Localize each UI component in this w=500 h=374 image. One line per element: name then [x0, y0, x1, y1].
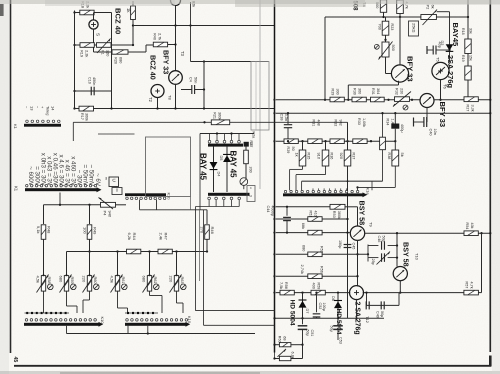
svg-text:5k: 5k: [400, 153, 405, 157]
svg-text:50: 50: [291, 147, 295, 151]
svg-text:D7: D7: [305, 309, 309, 314]
svg-text:~ 600V: ~ 600V: [27, 166, 34, 187]
svg-text:U: U: [112, 179, 117, 182]
svg-text:K1: K1: [14, 186, 19, 192]
svg-text:Teleg: Teleg: [45, 106, 50, 115]
svg-text:C38: C38: [279, 114, 283, 121]
svg-text:R23: R23: [390, 24, 394, 31]
svg-text:R21: R21: [213, 112, 217, 119]
svg-text:BAY45: BAY45: [451, 23, 460, 48]
svg-text:50n: 50n: [193, 77, 197, 83]
svg-text:2,7k: 2,7k: [157, 33, 161, 40]
svg-text:100μ: 100μ: [322, 303, 326, 311]
svg-text:R51: R51: [309, 211, 313, 218]
svg-text:C44: C44: [266, 206, 270, 213]
svg-text:S: S: [96, 33, 101, 36]
svg-text:BFY 33: BFY 33: [406, 56, 415, 82]
svg-text:6,8k: 6,8k: [291, 352, 295, 359]
svg-text:R36: R36: [330, 153, 334, 160]
svg-text:HD 5004: HD 5004: [335, 309, 342, 335]
svg-text:3,3n: 3,3n: [284, 114, 288, 121]
svg-text:T10: T10: [415, 253, 420, 261]
svg-text:~ 50mV: ~ 50mV: [88, 165, 95, 187]
svg-text:K2a: K2a: [251, 132, 255, 140]
svg-text:R56: R56: [320, 266, 324, 273]
svg-text:K1a: K1a: [366, 188, 371, 196]
svg-text:C45: C45: [352, 243, 356, 250]
svg-text:910: 910: [317, 153, 322, 160]
svg-text:920: 920: [339, 153, 344, 160]
svg-text:BAY 45: BAY 45: [229, 151, 238, 179]
svg-text:50p: 50p: [381, 236, 385, 242]
svg-text:R32: R32: [395, 88, 399, 95]
svg-text:680: 680: [58, 276, 63, 283]
svg-text:− 30V: − 30V: [76, 170, 83, 187]
svg-text:1,06k: 1,06k: [362, 118, 366, 127]
svg-text:BCZ 40: BCZ 40: [149, 55, 158, 80]
svg-text:50μ: 50μ: [306, 330, 310, 336]
svg-text:C53: C53: [339, 337, 343, 344]
svg-text:= 300V: = 300V: [33, 166, 40, 187]
svg-text:R57: R57: [465, 282, 469, 289]
svg-text:K1: K1: [13, 124, 18, 130]
svg-text:400: 400: [312, 283, 316, 289]
svg-text:K10: K10: [100, 317, 105, 325]
svg-text:2,74k: 2,74k: [300, 265, 304, 274]
svg-text:R33: R33: [357, 118, 361, 125]
svg-text:680: 680: [118, 57, 122, 63]
svg-text:R54: R54: [465, 223, 469, 230]
svg-text:200: 200: [249, 167, 253, 173]
svg-text:408: 408: [316, 120, 320, 126]
svg-text:220: 220: [81, 276, 86, 283]
svg-text:BFY 33: BFY 33: [162, 50, 171, 74]
svg-text:360k: 360k: [337, 211, 341, 219]
svg-text:R34: R34: [386, 119, 390, 126]
svg-text:R63: R63: [180, 277, 184, 284]
svg-text:R61: R61: [121, 277, 125, 284]
svg-text:C49: C49: [376, 311, 380, 318]
svg-text:D5: D5: [219, 156, 223, 161]
svg-text:410: 410: [313, 211, 317, 217]
svg-text:P2: P2: [426, 5, 431, 10]
svg-text:68: 68: [282, 336, 286, 340]
svg-text:T5: T5: [436, 57, 441, 62]
svg-text:T2: T2: [148, 97, 153, 103]
svg-text:D8: D8: [331, 296, 335, 301]
svg-text:R60: R60: [93, 277, 97, 284]
svg-text:4,5k: 4,5k: [109, 276, 114, 284]
svg-text:BSY 58: BSY 58: [358, 201, 367, 226]
svg-text:R59: R59: [316, 283, 320, 290]
svg-text:R62: R62: [153, 277, 157, 284]
svg-text:R58: R58: [47, 277, 51, 284]
svg-text:T6: T6: [443, 84, 448, 89]
svg-text:R46: R46: [210, 227, 215, 235]
svg-text:T12: T12: [365, 316, 370, 324]
svg-text:R40: R40: [153, 33, 157, 40]
svg-text:R27: R27: [466, 105, 470, 112]
svg-text:R29: R29: [286, 147, 290, 154]
svg-text:R58: R58: [284, 282, 288, 289]
svg-text:360: 360: [357, 88, 361, 94]
svg-text:x 4,6 = 30V: x 4,6 = 30V: [57, 155, 64, 187]
svg-text:R35: R35: [307, 153, 311, 160]
svg-text:33k: 33k: [469, 28, 473, 34]
svg-text:R52: R52: [320, 246, 324, 253]
svg-text:cc: cc: [115, 189, 119, 193]
svg-text:4,5k: 4,5k: [35, 276, 40, 284]
svg-text:P4: P4: [103, 211, 108, 217]
svg-text:R29: R29: [331, 89, 335, 96]
svg-text:680: 680: [302, 245, 306, 251]
svg-text:x 460 = 3V: x 460 = 3V: [70, 156, 77, 187]
svg-text:R44: R44: [132, 233, 137, 241]
svg-text:R31: R31: [312, 120, 316, 127]
svg-text:= 50mV: = 50mV: [82, 165, 89, 187]
svg-text:2,4k: 2,4k: [159, 233, 164, 241]
svg-text:R38: R38: [387, 153, 391, 160]
svg-text:D4: D4: [217, 172, 221, 178]
svg-text:x 0,46 =30V: x 0,46 =30V: [51, 153, 58, 187]
svg-text:R32: R32: [334, 120, 338, 127]
svg-text:K10: K10: [187, 316, 192, 324]
svg-text:4,7k: 4,7k: [469, 282, 473, 289]
svg-text:6k: 6k: [430, 5, 435, 9]
svg-text:2,2k: 2,2k: [84, 50, 88, 57]
svg-text:C46: C46: [377, 236, 381, 243]
svg-text:T8: T8: [168, 95, 173, 100]
svg-text:100: 100: [83, 227, 88, 234]
svg-text:6,2k: 6,2k: [127, 233, 132, 241]
svg-text:43k: 43k: [470, 223, 474, 229]
svg-text:BAY 45: BAY 45: [199, 153, 208, 181]
svg-text:BSY 58: BSY 58: [402, 242, 411, 267]
svg-text:x 043 = 3V: x 043 = 3V: [45, 156, 52, 187]
svg-text:364: 364: [376, 88, 380, 94]
svg-text:150μ: 150μ: [338, 240, 342, 248]
svg-text:680: 680: [141, 276, 146, 283]
svg-text:940: 940: [107, 211, 112, 218]
svg-text:R20: R20: [114, 57, 118, 64]
svg-text:3: 3: [249, 195, 253, 197]
svg-text:x 46 = 3V: x 46 = 3V: [64, 160, 71, 187]
svg-text:T3: T3: [180, 51, 185, 57]
svg-text:360k: 360k: [85, 113, 89, 121]
svg-text:R27: R27: [249, 141, 253, 148]
svg-text:x 0h3 = 30V: x 0h3 = 30V: [39, 153, 46, 187]
svg-text:R53: R53: [332, 211, 336, 218]
svg-text:360k: 360k: [217, 112, 221, 120]
svg-text:500: 500: [391, 45, 395, 51]
svg-text:15k: 15k: [469, 55, 473, 61]
svg-text:D2: D2: [440, 41, 444, 46]
svg-text:×: ×: [249, 187, 253, 189]
svg-text:R60: R60: [278, 336, 282, 343]
svg-text:7,5k: 7,5k: [279, 282, 283, 289]
svg-text:68k: 68k: [301, 223, 305, 229]
svg-text:BCZ 40: BCZ 40: [114, 8, 123, 34]
svg-text:400μ: 400μ: [400, 124, 404, 133]
svg-text:25p: 25p: [371, 259, 375, 265]
svg-text:R37: R37: [352, 153, 356, 160]
svg-text:R59: R59: [70, 277, 74, 284]
svg-text:C10: C10: [87, 77, 91, 84]
svg-text:4000μ: 4000μ: [270, 206, 274, 217]
svg-text:220: 220: [399, 88, 403, 94]
svg-text:9,1k: 9,1k: [36, 226, 41, 234]
svg-text:C40: C40: [429, 129, 433, 136]
svg-text:50μ: 50μ: [380, 311, 384, 317]
svg-text:R30: R30: [353, 88, 357, 95]
svg-text:10n: 10n: [433, 129, 437, 135]
svg-text:300: 300: [335, 89, 339, 95]
svg-text:R49: R49: [93, 227, 98, 235]
svg-text:R19: R19: [80, 50, 84, 57]
svg-text:3,3k: 3,3k: [470, 105, 474, 112]
svg-text:C52: C52: [318, 303, 322, 310]
svg-text:R47: R47: [164, 233, 169, 241]
svg-text:450n: 450n: [92, 77, 96, 85]
svg-text:220: 220: [168, 276, 173, 283]
svg-text:HD 5004: HD 5004: [289, 300, 296, 326]
svg-text:BFY 33: BFY 33: [438, 102, 447, 128]
svg-text:700: 700: [378, 24, 382, 30]
svg-text:1k: 1k: [295, 153, 300, 157]
svg-text:R18: R18: [461, 28, 465, 35]
svg-text:270: 270: [200, 227, 205, 234]
svg-text:942: 942: [338, 120, 342, 126]
svg-text:R17: R17: [80, 113, 84, 120]
svg-text:R31: R31: [371, 88, 375, 95]
svg-text:R19: R19: [461, 55, 465, 62]
svg-text:220: 220: [105, 50, 109, 56]
svg-text:45: 45: [12, 357, 18, 363]
svg-text:T9: T9: [369, 222, 374, 227]
svg-text:25kΩ: 25kΩ: [411, 23, 416, 32]
svg-text:R48: R48: [47, 226, 52, 234]
svg-text:C4: C4: [189, 77, 193, 83]
svg-text:∞: ∞: [104, 177, 109, 180]
svg-text:C51: C51: [310, 330, 314, 337]
svg-text:50μ: 50μ: [330, 326, 334, 332]
